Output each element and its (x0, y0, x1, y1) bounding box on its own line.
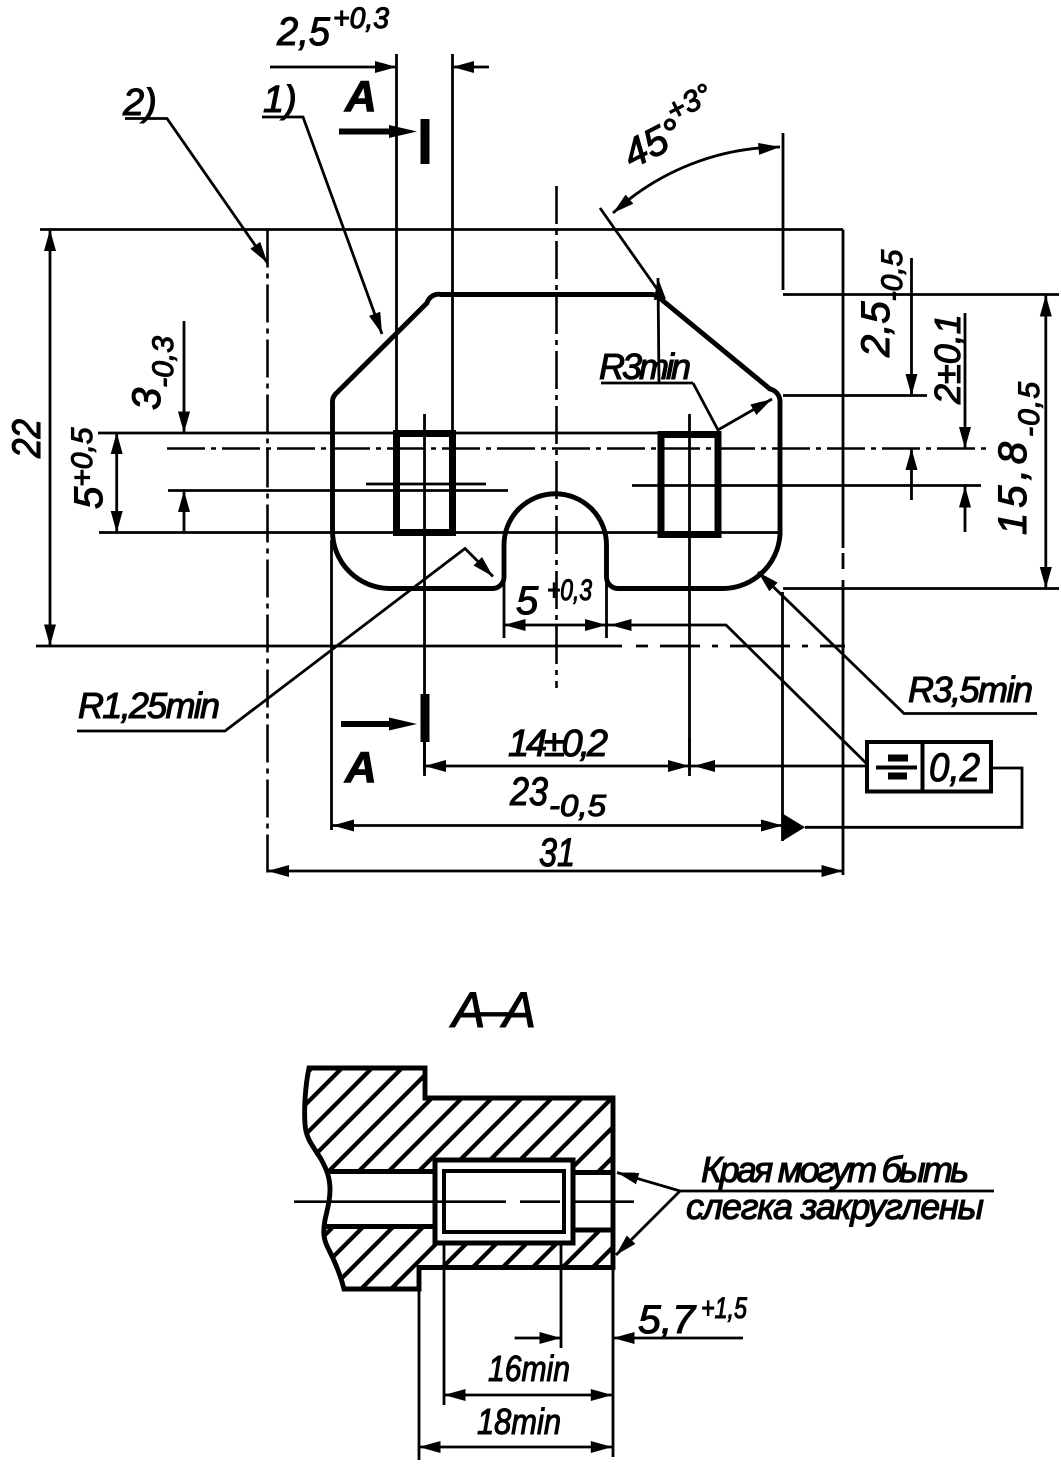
top edge extension right (783, 293, 1059, 296)
dimension 31 (268, 870, 844, 873)
dimension 22 left (49, 230, 52, 647)
part left edge extension down (330, 540, 333, 830)
dimension 5+0,3 notch (504, 625, 866, 763)
dimension 5+0,5 left (115, 433, 118, 533)
svg-text:Края могут быть: Края могут быть (701, 1149, 969, 1190)
svg-text:5: 5 (516, 579, 539, 623)
slot top line left (327, 1169, 435, 1174)
slot bottom line left (325, 1224, 436, 1229)
left hole left edge extension up (395, 54, 398, 433)
svg-text:A: A (344, 72, 377, 121)
main part outline (332, 294, 780, 588)
line right y485.5 (632, 484, 981, 487)
dimension 14±0,2 (425, 738, 868, 776)
datum leader to frame (805, 768, 1022, 827)
section cut mark bottom with letter A (341, 721, 398, 727)
svg-text:18min: 18min (477, 1401, 561, 1442)
contact inner rect (444, 1171, 564, 1232)
dimension 2±0,1 right (964, 313, 967, 532)
dimension 18min (419, 1446, 612, 1449)
hole bottom extension line (99, 531, 780, 534)
svg-text:A–A: A–A (449, 982, 536, 1038)
contact outer rect (435, 1160, 573, 1243)
section body outline (305, 1068, 613, 1289)
left hole rect (397, 434, 453, 533)
dimension 2,5+0,3 top (270, 66, 489, 69)
upper hatched region (304, 1068, 613, 1173)
left hole right edge extension up (451, 54, 454, 433)
blank left edge chain (266, 230, 269, 876)
short line left y484 (366, 483, 486, 486)
slot bottom line right (573, 1228, 613, 1233)
horizontal centerline of holes (167, 447, 987, 450)
hole top extension line (98, 432, 718, 435)
blank right edge (842, 230, 845, 876)
datum triangle (783, 814, 806, 842)
arch top extension line (168, 489, 508, 492)
section extension lines (419, 1243, 613, 1460)
section centerline (294, 1200, 634, 1203)
chamfer end extension line (783, 394, 927, 397)
svg-text:A: A (344, 743, 377, 792)
dimension 3-0,3 left (183, 321, 186, 531)
dimension 23-0,5 (333, 824, 783, 827)
dimension 5,7+1,5 (515, 1337, 743, 1340)
section cut mark top with letter A (339, 129, 396, 135)
svg-text:2,5: 2,5 (276, 10, 331, 54)
dimension 2,5-0,5 right (910, 258, 913, 500)
right hole centerline (688, 414, 691, 770)
chamfer thin extension up-left (600, 208, 662, 296)
bottom edge extension right (783, 587, 1059, 590)
dimension 45 deg arc (613, 147, 780, 213)
parallelism symbol (888, 755, 908, 762)
part right edge extension down (781, 592, 784, 841)
vertical ext for 45 arc (782, 133, 785, 290)
svg-text:R1,25min: R1,25min (78, 685, 220, 726)
svg-text:0,2: 0,2 (929, 746, 980, 790)
svg-text:R3min: R3min (599, 346, 691, 387)
svg-text:R3,5min: R3,5min (908, 669, 1033, 710)
left hole centerline (423, 414, 426, 770)
bottom boundary line (36, 645, 845, 648)
notch right wall extension (605, 576, 608, 638)
tolerance frame (867, 742, 991, 792)
blank boundary top line (40, 228, 843, 231)
svg-text:1): 1) (263, 79, 297, 121)
svg-text:14±0,2: 14±0,2 (508, 723, 608, 765)
svg-text:31: 31 (539, 831, 575, 875)
svg-text:16min: 16min (488, 1348, 570, 1389)
svg-text:22: 22 (5, 419, 49, 459)
slot top line right (573, 1170, 613, 1175)
dimension 15,8-0,5 right (1044, 295, 1047, 589)
dimension 16min (444, 1394, 612, 1397)
svg-text:-0,5: -0,5 (549, 788, 607, 823)
svg-text:+0,3: +0,3 (547, 574, 592, 607)
notch left wall extension (503, 576, 506, 638)
right hole rect (661, 435, 718, 535)
svg-text:23: 23 (509, 770, 548, 814)
svg-text:+1,5: +1,5 (701, 1292, 747, 1325)
lower hatched region (324, 1227, 613, 1290)
svg-text:+0,3: +0,3 (333, 2, 389, 35)
central vertical axis (555, 186, 558, 688)
svg-text:5,7: 5,7 (638, 1298, 697, 1342)
svg-text:2±0,1: 2±0,1 (927, 314, 968, 405)
